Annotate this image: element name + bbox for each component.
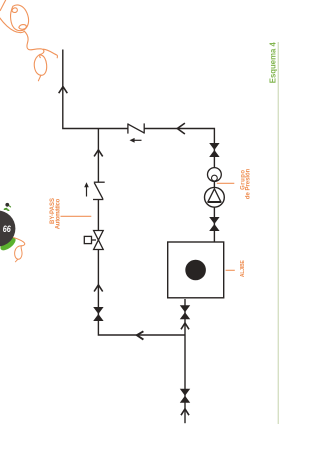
svg-text:ALJIBE: ALJIBE (240, 259, 246, 277)
svg-text:Esquema 4: Esquema 4 (267, 42, 277, 83)
svg-text:66: 66 (3, 224, 12, 234)
svg-text:de Presión: de Presión (246, 168, 252, 199)
svg-text:Automático: Automático (55, 198, 61, 229)
